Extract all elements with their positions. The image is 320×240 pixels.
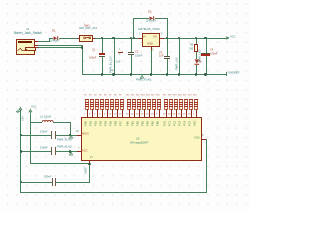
capacitor C5: [51, 131, 52, 139]
junction dots on main rail: [101, 37, 103, 39]
connector J1 (Barrel_Jack_Switch): [26, 28, 29, 31]
pin stub / pin 2: [86, 109, 89, 117]
resistor R7: [109, 94, 111, 96]
resistor R3: [89, 94, 91, 96]
wire into D1: [49, 38, 53, 39]
AREF vertical: [89, 163, 90, 182]
wire D1 to SW1: [59, 38, 78, 39]
regulator GND pin wire: [151, 47, 152, 50]
pin stub / pin 13: [121, 109, 124, 117]
PWR_FLAG at AVCC: [69, 135, 73, 139]
resistor R15: [151, 94, 155, 96]
left vertical V1: [20, 110, 21, 192]
pin stub / pin 15: [133, 109, 136, 117]
pin stub / pin 23: [165, 109, 168, 117]
pin stub / pin 14: [128, 109, 131, 117]
resistor R21: [183, 94, 187, 96]
resistor R4: [94, 94, 96, 96]
capacitor C1: [102, 38, 103, 53]
inductor L1: [42, 119, 54, 123]
pin stub / pin 27: [185, 109, 188, 117]
pin stub / pin 17: [143, 109, 146, 117]
resistor R22: [188, 94, 192, 96]
bypass diode loop: [133, 18, 134, 38]
resistor R9: [119, 94, 121, 96]
resistor R19: [173, 94, 177, 96]
pin stub / pin 26: [180, 109, 183, 117]
bottom long wire: [20, 192, 206, 193]
J1 pin stubs: [35, 41, 38, 42]
L1 drop to AVCC wire: [70, 122, 71, 135]
wire C (AREF cap) y182: [20, 182, 52, 183]
resistor R20: [178, 94, 182, 96]
ground rail: [82, 74, 227, 75]
small connector marks near x120: [119, 49, 120, 51]
pin stub / pin 4: [96, 109, 99, 117]
IC U2 ATmega328-P: [81, 117, 202, 161]
resistor R16: [156, 94, 160, 96]
resistor R2: [84, 94, 86, 96]
power arrow VCC (second): [29, 109, 33, 115]
wire D rect bottom y163.5: [30, 163, 89, 164]
junction dots V1: [20, 134, 22, 136]
pin stub / pin 5: [101, 109, 104, 117]
capacitor C2: [131, 38, 132, 52]
resistor R13: [141, 94, 145, 96]
capacitor C4: [206, 38, 207, 53]
power arrow +5V (left): [19, 107, 23, 112]
regulator input/output pin stubs: [138, 38, 142, 39]
pin stub / pin 25: [175, 109, 178, 117]
net label vertical PWR_IN: [114, 38, 115, 76]
pin stub / pin 16: [138, 109, 141, 117]
pin stub / pin 3: [91, 109, 94, 117]
inductor L1 wire: [30, 122, 42, 123]
capacitor C6: [51, 147, 52, 155]
resistor R14: [146, 94, 150, 96]
AVCC pin stub: [77, 135, 81, 136]
diode D1: [53, 36, 59, 40]
pin stub / pin 24: [170, 109, 173, 117]
capacitor C7: [52, 178, 53, 186]
pin stub / pin 19: [153, 109, 156, 117]
resistor R12: [136, 94, 140, 96]
LED LED1: [194, 59, 204, 67]
jack pin2/pin3 wires to ground: [38, 45, 82, 46]
resistor R1 + LED: [196, 38, 197, 44]
PWR_FLAG at VCC: [69, 152, 73, 156]
pin stub / pin 1: [195, 109, 198, 117]
right vertical to GND pin: [206, 139, 207, 193]
VCC pin stub: [77, 151, 81, 152]
pin stub / pin 6: [106, 109, 109, 117]
wire jog up: [49, 38, 50, 42]
resistor R10: [126, 94, 130, 96]
junction dots on ground rail: [101, 73, 103, 75]
pin stub / pin 18: [148, 109, 151, 117]
switch SW1 (SW_DIP_x01): [84, 25, 90, 28]
capacitor C3: [167, 38, 168, 56]
resistor R23: [193, 94, 197, 96]
pin stub / pin 28: [190, 109, 193, 117]
resistor R18: [168, 94, 172, 96]
main rail wire y38: [95, 38, 138, 39]
resistor R17: [163, 94, 167, 96]
pin stub / pin 12: [116, 109, 119, 117]
net label vertical +5V: [179, 38, 180, 76]
pin stub / pin 11: [111, 109, 114, 117]
V2 vertical from arrow2: [30, 114, 31, 164]
resistor R8: [114, 94, 116, 96]
GNDREF label: [226, 72, 227, 76]
regulator U1 LM78L05: [138, 28, 160, 31]
wire jack pin1 to D1: [38, 41, 50, 42]
resistor R6: [104, 94, 106, 96]
diode D2: [149, 16, 155, 20]
PWR_FLAG on ground rail: [140, 75, 144, 79]
resistor R5: [99, 94, 101, 96]
wire A (AVCC) y135: [20, 135, 51, 136]
power arrow VCC right: [226, 36, 231, 41]
wire B (VCC) y151.5: [20, 151, 51, 152]
resistor R11: [131, 94, 134, 96]
pin stub / pin 9: [158, 109, 161, 117]
